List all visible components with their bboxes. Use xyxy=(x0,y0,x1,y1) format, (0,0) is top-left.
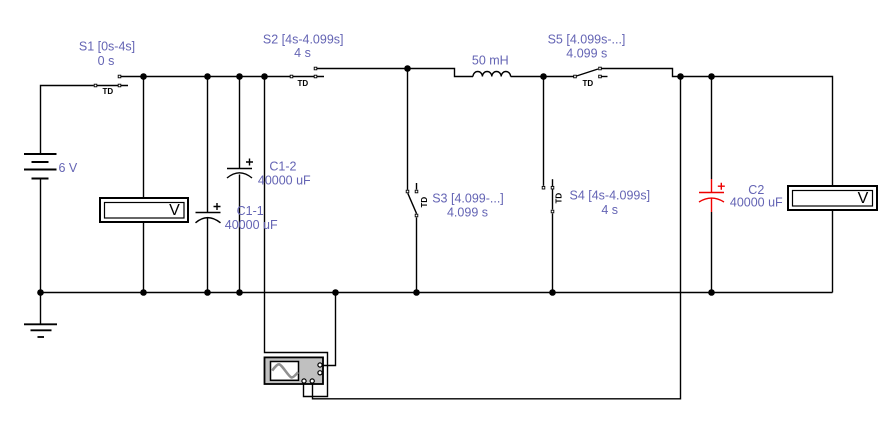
label C2 xyxy=(748,183,764,197)
switch S3 xyxy=(406,183,429,217)
svg-text:TD: TD xyxy=(420,197,429,208)
wire bottom rail xyxy=(41,292,833,294)
wire left voltmeter top xyxy=(143,77,145,199)
junction bottom rail scope ground xyxy=(332,289,339,296)
label 4.099 s xyxy=(566,47,607,61)
label S4 [4s-4.099s] xyxy=(569,189,650,203)
svg-text:C1-2: C1-2 xyxy=(269,160,296,174)
svg-text:40000 uF: 40000 uF xyxy=(225,218,278,232)
wire S4 branch bottom xyxy=(552,214,554,293)
svg-text:40000 uF: 40000 uF xyxy=(730,195,783,209)
label S2 [4s-4.099s] xyxy=(263,32,344,46)
wire C2 top xyxy=(711,77,713,180)
svg-text:50 mH: 50 mH xyxy=(472,54,509,68)
junction bottom rail C2 xyxy=(708,289,715,296)
wire C1-1 bottom xyxy=(207,218,209,293)
svg-text:S2 [4s-4.099s]: S2 [4s-4.099s] xyxy=(263,32,344,46)
wire battery bottom xyxy=(40,179,42,293)
svg-text:S4 [4s-4.099s]: S4 [4s-4.099s] xyxy=(569,189,650,203)
junction node B scope channel xyxy=(677,73,684,80)
svg-text:TD: TD xyxy=(298,79,309,88)
label 4 s xyxy=(601,203,618,217)
junction inductor output / S4 branch xyxy=(540,73,547,80)
svg-text:4.099 s: 4.099 s xyxy=(566,47,607,61)
label C1-2 xyxy=(269,160,296,174)
label 40000 uF C1-2 xyxy=(258,174,311,188)
wire S2 output to inductor xyxy=(316,69,474,77)
switch S5 xyxy=(574,67,608,88)
wire C1-2 top xyxy=(239,77,241,169)
junction bottom rail S4 xyxy=(549,289,556,296)
inductor L1 50 mH xyxy=(473,72,511,77)
wire inductor to S5 xyxy=(511,76,574,78)
label S3 [4.099-...] xyxy=(432,191,504,205)
junction bottom rail S3 xyxy=(413,289,420,296)
wire S4 branch top xyxy=(543,77,545,186)
svg-text:V: V xyxy=(858,190,869,207)
wire battery top to S1 xyxy=(41,86,94,155)
junction bottom rail voltmeter xyxy=(140,289,147,296)
label C1-1 xyxy=(237,204,264,218)
junction top rail C1-2 xyxy=(236,73,243,80)
label 4 s xyxy=(294,46,311,60)
svg-text:S3 [4.099-...]: S3 [4.099-...] xyxy=(432,191,504,205)
label 4.099 s xyxy=(447,206,488,220)
wire S1 output to node A xyxy=(121,76,144,78)
svg-text:TD: TD xyxy=(103,87,114,96)
label S5 [4.099s-...] xyxy=(548,32,626,46)
svg-text:S1 [0s-4s]: S1 [0s-4s] xyxy=(79,39,135,53)
capacitor C2 (red, polarized) xyxy=(699,179,725,212)
svg-text:4 s: 4 s xyxy=(294,46,311,60)
svg-text:0 s: 0 s xyxy=(98,54,115,68)
svg-text:TD: TD xyxy=(555,193,564,204)
svg-text:S5 [4.099s-...]: S5 [4.099s-...] xyxy=(548,32,626,46)
svg-text:V: V xyxy=(169,202,180,219)
battery V1 xyxy=(24,154,57,179)
junction bottom rail battery xyxy=(37,289,44,296)
wire top rail node A to S2 xyxy=(144,76,291,78)
switch S1 xyxy=(94,75,128,96)
voltmeter U1 (left) xyxy=(100,198,188,222)
wire S5 output to right rail xyxy=(600,69,833,187)
label S1 [0s-4s] xyxy=(79,39,135,53)
wire C1-2 bottom xyxy=(239,175,241,293)
capacitor C1-2 xyxy=(227,159,253,179)
junction S2 output / S3 branch xyxy=(404,65,411,72)
switch S2 xyxy=(290,67,324,88)
junction bottom rail C1-1 xyxy=(204,289,211,296)
junction node B C2 top xyxy=(708,73,715,80)
wire C1-1 top xyxy=(207,77,209,213)
svg-text:4.099 s: 4.099 s xyxy=(447,206,488,220)
svg-text:C1-1: C1-1 xyxy=(237,204,264,218)
ground xyxy=(24,324,57,337)
label 40000 uF C1-1 xyxy=(225,218,278,232)
label 6 V xyxy=(59,161,78,175)
junction bottom rail C1-2 xyxy=(236,289,243,296)
wire right voltmeter bottom xyxy=(832,210,834,293)
wire S3 branch top xyxy=(407,69,409,190)
svg-text:4 s: 4 s xyxy=(601,203,618,217)
wire S3 branch bottom xyxy=(416,218,418,293)
wire ground stem xyxy=(40,293,42,325)
svg-text:40000 uF: 40000 uF xyxy=(258,174,311,188)
wire left voltmeter bottom xyxy=(143,222,145,293)
junction top rail scope probe xyxy=(261,73,268,80)
capacitor C1-1 xyxy=(196,203,221,223)
junction top rail C1-1 xyxy=(204,73,211,80)
switch S4 xyxy=(542,179,563,213)
svg-text:6 V: 6 V xyxy=(59,161,78,175)
label 0 s xyxy=(98,54,115,68)
voltmeter U2 (right) xyxy=(788,186,877,210)
label 50 mH xyxy=(472,54,509,68)
wire scope probe from node A rail to scope bottom-left connector xyxy=(265,77,328,397)
wire C2 bottom xyxy=(711,212,713,293)
junction top rail node A xyxy=(140,73,147,80)
wire scope ground from bottom rail to scope right-top connector xyxy=(322,293,336,366)
oscilloscope XSC1 xyxy=(265,357,324,384)
svg-text:TD: TD xyxy=(583,79,594,88)
wire scope channel B from bottom-right connector to node B C2 top xyxy=(313,77,681,399)
label 40000 uF C2 xyxy=(730,195,783,209)
